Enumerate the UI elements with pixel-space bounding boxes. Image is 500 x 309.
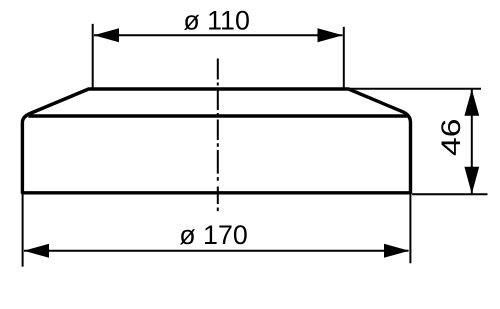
extension line bottom (46) (412, 193, 488, 195)
arrowhead up (46) (464, 89, 479, 116)
extension line top (46) (345, 88, 481, 90)
arrowhead right (dia 170) (384, 244, 409, 258)
dimension line dia 170 (24, 250, 409, 252)
cap outline (22, 89, 410, 193)
svg-text:ø 170: ø 170 (179, 220, 248, 250)
centre line (217, 59, 219, 212)
svg-text:46: 46 (436, 119, 466, 157)
arrowhead down (46) (464, 167, 479, 194)
extension line left (dia 170) (22, 195, 24, 267)
chamfer edge line (28, 114, 408, 117)
extension line left (dia 110) (92, 24, 94, 88)
arrowhead left (dia 110) (94, 28, 119, 42)
svg-text:ø 110: ø 110 (183, 5, 250, 35)
dimension line dia 110 (94, 34, 343, 36)
arrowhead left (dia 170) (24, 244, 49, 258)
dimension line 46 (471, 90, 473, 194)
extension line right (dia 170) (409, 195, 411, 264)
arrowhead right (dia 110) (318, 28, 343, 42)
extension line right (dia 110) (343, 27, 345, 89)
